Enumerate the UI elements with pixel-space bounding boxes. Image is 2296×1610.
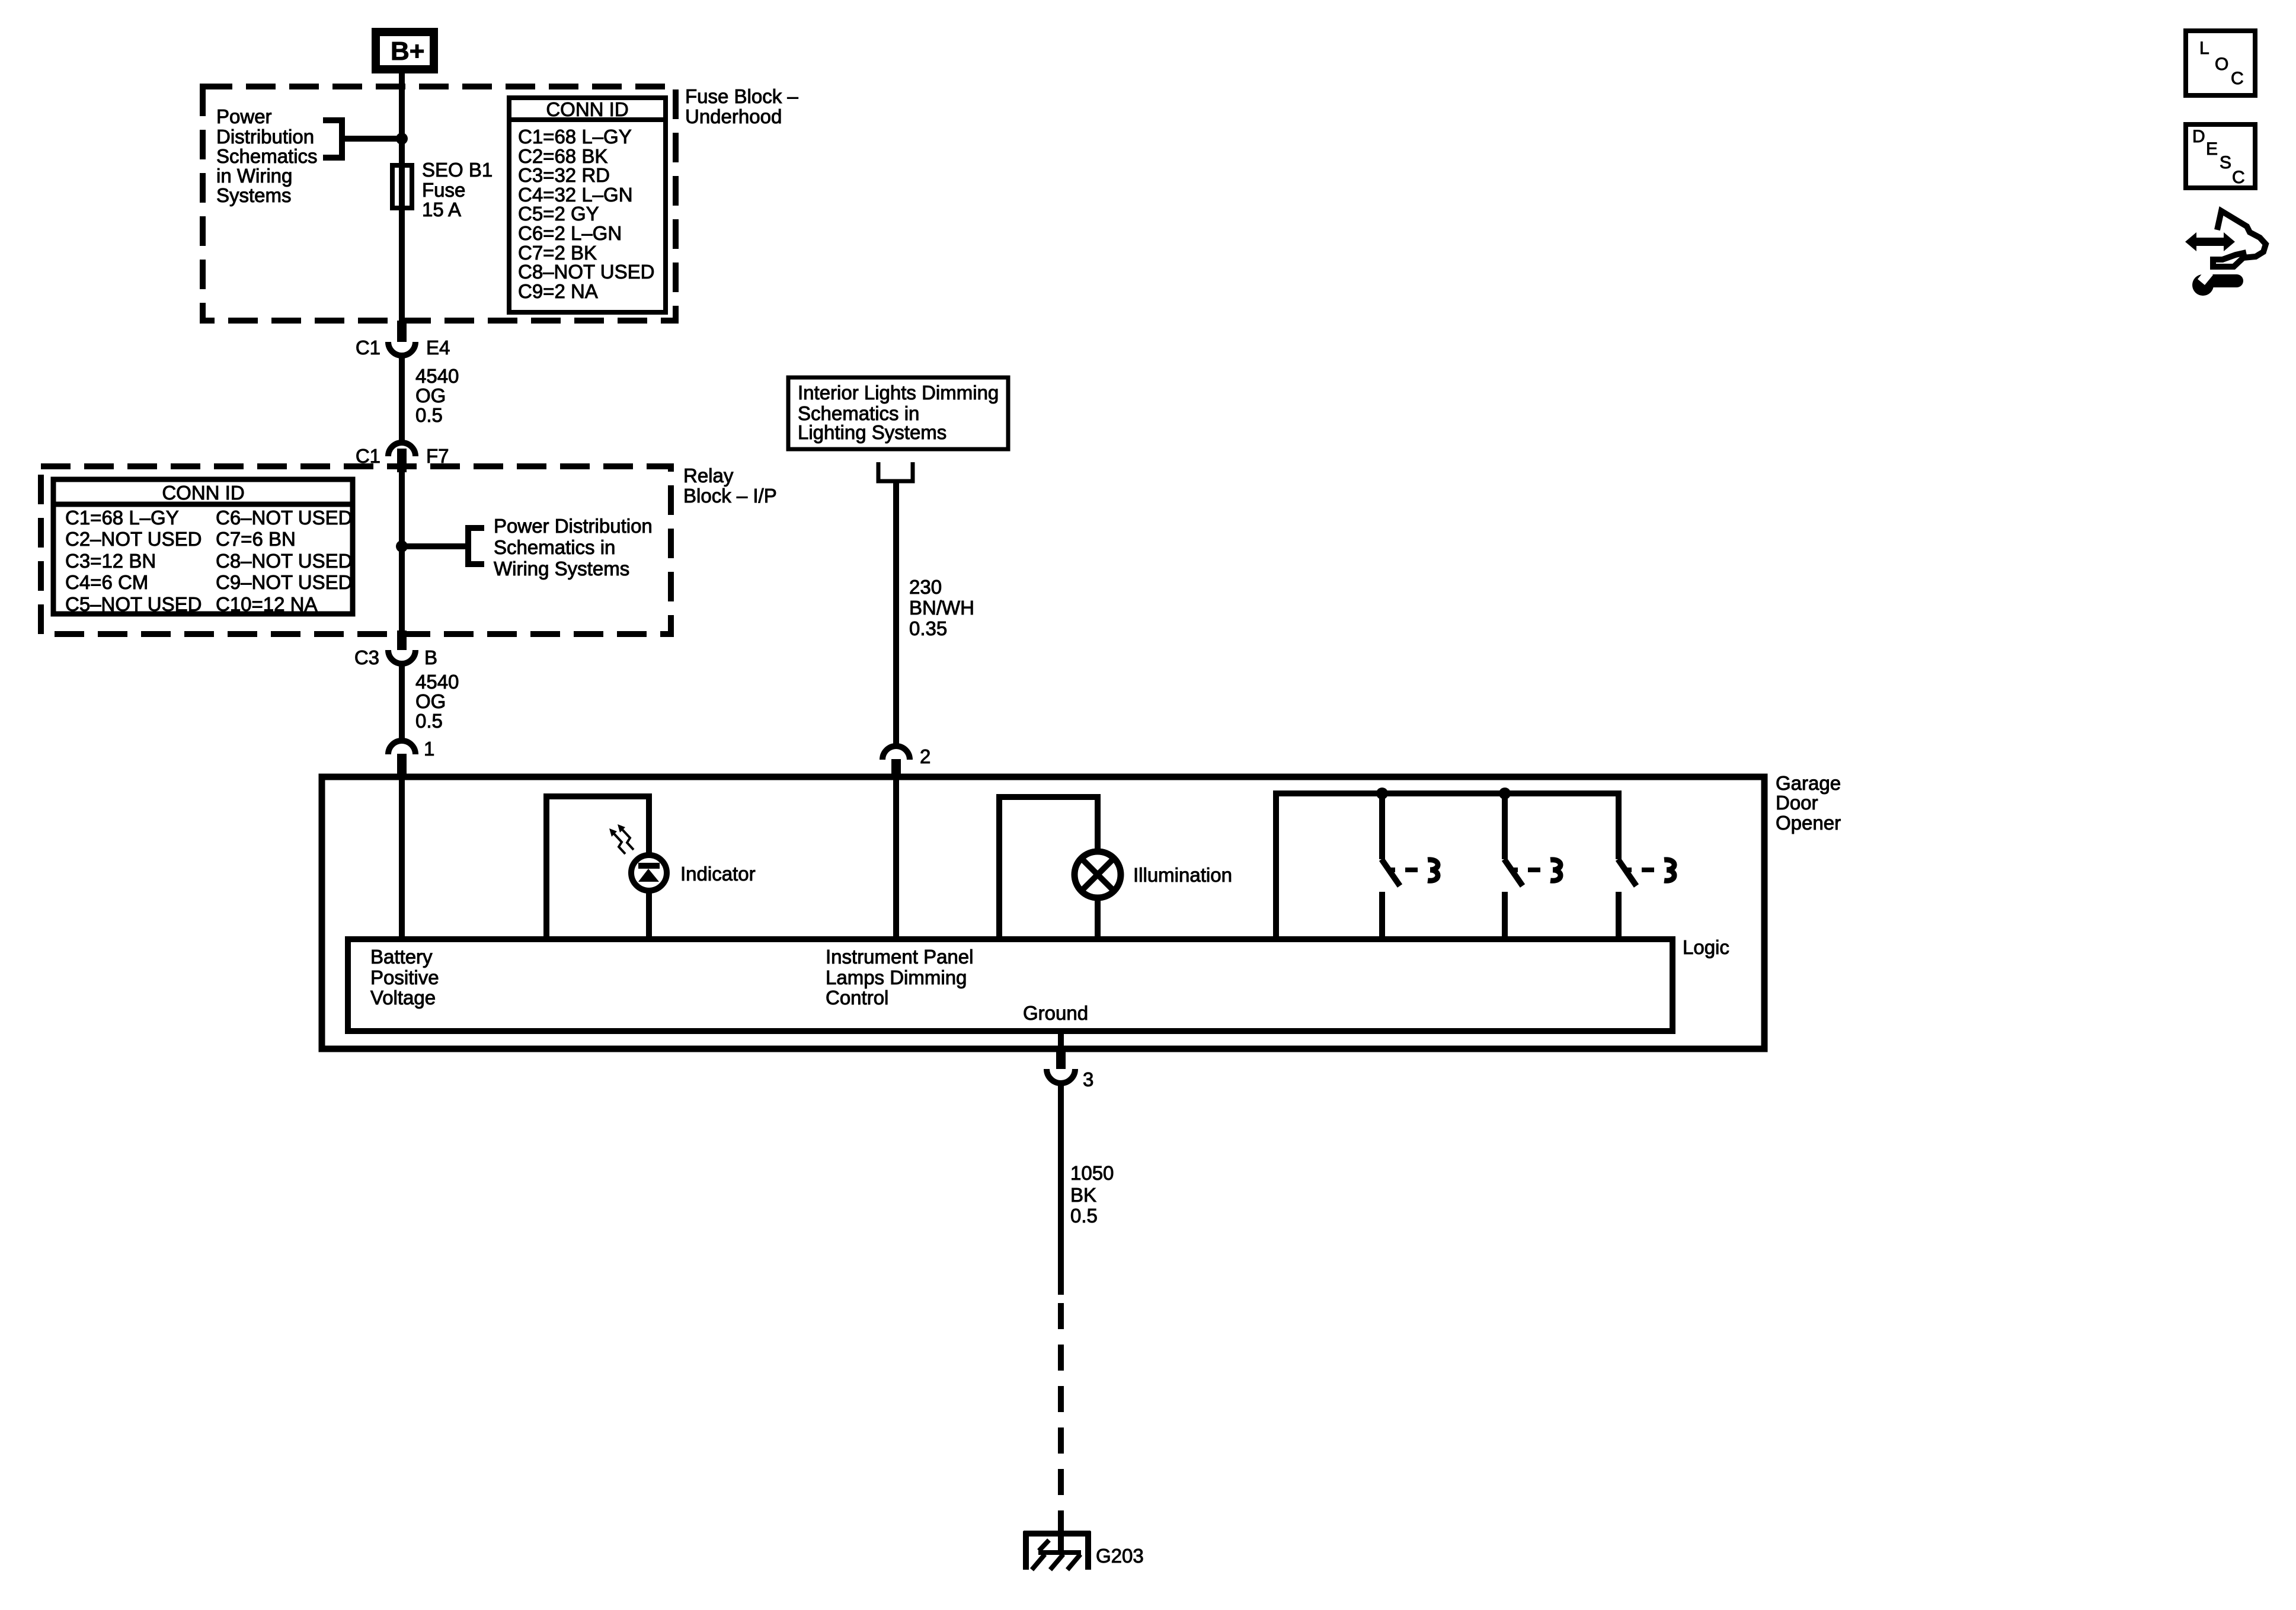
wire LED to logic [646, 891, 652, 939]
svg-text:E: E [2206, 139, 2218, 159]
svg-text:OG: OG [415, 690, 446, 712]
svg-text:Opener: Opener [1776, 812, 1841, 834]
bracket to Power Distribution note [323, 120, 342, 158]
svg-text:1050: 1050 [1070, 1162, 1114, 1184]
svg-text:Voltage: Voltage [370, 987, 436, 1009]
wire 2 dimming control inside box [893, 777, 899, 939]
svg-text:0.5: 0.5 [415, 710, 443, 732]
indicator LED branch loop [546, 796, 649, 939]
svg-text:C1=68 L–GY: C1=68 L–GY [65, 507, 179, 529]
svg-text:C5–NOT USED: C5–NOT USED [65, 593, 202, 615]
illumination lamp branch loop [999, 797, 1098, 939]
fuse SEO B1 15 A [392, 165, 412, 208]
svg-text:4540: 4540 [415, 671, 459, 693]
switch feed rail [1276, 793, 1619, 939]
svg-text:Control: Control [826, 987, 888, 1009]
wire bracket to junction [342, 136, 402, 142]
B+ power symbol box [376, 32, 434, 69]
LED light arrows [614, 830, 634, 854]
svg-text:230: 230 [909, 576, 942, 598]
svg-text:4540: 4540 [415, 365, 459, 387]
connector pin 3 [1047, 1068, 1093, 1090]
junction dot [396, 133, 408, 145]
svg-text:2: 2 [920, 745, 930, 767]
svg-text:Indicator: Indicator [680, 863, 756, 885]
wire lamp to logic [1095, 898, 1101, 939]
svg-text:Systems: Systems [216, 184, 292, 206]
wire from dimming reference down [893, 481, 899, 746]
junction dot relay [396, 540, 408, 552]
ground wire down [1058, 1083, 1064, 1295]
svg-text:Illumination: Illumination [1133, 864, 1232, 886]
fuse block underhood dashed box [203, 87, 676, 321]
connector C1 F7 [356, 443, 449, 472]
svg-text:S: S [2220, 153, 2231, 172]
svg-text:in Wiring: in Wiring [216, 165, 292, 187]
svg-text:Interior Lights Dimming: Interior Lights Dimming [798, 382, 999, 404]
svg-text:3: 3 [1083, 1068, 1093, 1090]
wire E4 to F7 [399, 356, 405, 443]
svg-text:SEO B1: SEO B1 [422, 159, 493, 181]
svg-text:CONN ID: CONN ID [546, 98, 628, 120]
svg-text:C9–NOT USED: C9–NOT USED [216, 571, 352, 593]
bracket to Power Distribution note (relay) [468, 528, 484, 564]
svg-text:Relay: Relay [683, 465, 734, 486]
svg-text:1: 1 [424, 738, 434, 760]
svg-text:Power: Power [216, 105, 272, 127]
svg-text:C5=2 GY: C5=2 GY [518, 203, 599, 225]
svg-text:Lighting Systems: Lighting Systems [798, 421, 946, 443]
relay block I/P dashed box [41, 466, 671, 634]
svg-text:C: C [2231, 69, 2244, 88]
svg-text:C4=6 CM: C4=6 CM [65, 571, 148, 593]
connector pin 1 [388, 738, 434, 777]
svg-text:BN/WH: BN/WH [909, 597, 974, 619]
svg-text:Block – I/P: Block – I/P [683, 485, 777, 507]
svg-text:C8–NOT USED: C8–NOT USED [216, 550, 352, 572]
svg-text:Underhood: Underhood [685, 105, 782, 127]
svg-text:0.35: 0.35 [909, 617, 947, 639]
svg-text:Distribution: Distribution [216, 126, 314, 148]
CONN ID table (fuse block underhood) [509, 98, 666, 312]
Garage Door Opener box [322, 777, 1764, 1049]
off-page connector bracket below box [878, 462, 913, 481]
svg-text:B+: B+ [391, 37, 424, 66]
schematic navigation icon (wrench) [2192, 269, 2243, 296]
svg-text:O: O [2215, 55, 2228, 74]
svg-text:CONN ID: CONN ID [162, 482, 244, 504]
svg-text:Positive: Positive [370, 966, 439, 988]
svg-text:Schematics in: Schematics in [494, 536, 615, 558]
connector C1 E4 [356, 321, 450, 359]
svg-text:BK: BK [1070, 1184, 1096, 1206]
svg-text:Garage: Garage [1776, 772, 1841, 794]
svg-text:C9=2 NA: C9=2 NA [518, 280, 598, 302]
svg-text:C10=12 NA: C10=12 NA [216, 593, 318, 615]
svg-text:C: C [2232, 168, 2245, 187]
svg-text:C3=32 RD: C3=32 RD [518, 164, 610, 186]
svg-text:Schematics: Schematics [216, 145, 318, 167]
svg-text:C6=2 L–GN: C6=2 L–GN [518, 222, 622, 244]
ground symbol G203 [1024, 1531, 1144, 1570]
junction dot switch 2 [1499, 788, 1511, 799]
svg-text:C6–NOT USED: C6–NOT USED [216, 507, 352, 529]
svg-text:C1: C1 [356, 337, 380, 359]
Interior Lights Dimming reference box [788, 377, 1008, 449]
connector pin 2 [882, 745, 930, 777]
svg-text:Fuse: Fuse [422, 179, 465, 201]
junction dot switch 1 [1376, 788, 1388, 799]
svg-text:0.5: 0.5 [415, 404, 443, 426]
connector C3 B [354, 630, 437, 668]
svg-text:Ground: Ground [1023, 1002, 1088, 1024]
LED circle indicator [631, 855, 667, 891]
svg-text:C8–NOT USED: C8–NOT USED [518, 261, 654, 283]
switch 1 [1382, 793, 1438, 939]
wire from B+ down to E4 [399, 73, 405, 323]
svg-text:Battery: Battery [370, 946, 433, 968]
svg-text:C3=12 BN: C3=12 BN [65, 550, 156, 572]
svg-text:0.5: 0.5 [1070, 1205, 1098, 1227]
schematic navigation icon (outline shape) [2213, 211, 2266, 267]
svg-text:E4: E4 [426, 337, 450, 359]
DESC reference box [2186, 124, 2255, 188]
schematic navigation icon (double arrow) [2185, 232, 2235, 251]
svg-text:Power Distribution: Power Distribution [494, 515, 653, 537]
svg-text:OG: OG [415, 385, 446, 406]
svg-text:Logic: Logic [1683, 936, 1729, 958]
svg-text:B: B [424, 646, 437, 668]
svg-text:Door: Door [1776, 792, 1818, 814]
svg-text:L: L [2199, 39, 2209, 58]
svg-text:C7=6 BN: C7=6 BN [216, 528, 296, 550]
svg-text:C2–NOT USED: C2–NOT USED [65, 528, 202, 550]
lamp circle illumination [1075, 852, 1121, 898]
wire 1 battery feed inside box [399, 777, 405, 939]
svg-text:Instrument Panel: Instrument Panel [826, 946, 973, 968]
LOC reference box [2186, 31, 2255, 95]
svg-text:C1=68 L–GY: C1=68 L–GY [518, 126, 632, 148]
svg-text:Lamps Dimming: Lamps Dimming [826, 966, 967, 988]
svg-text:G203: G203 [1096, 1545, 1144, 1567]
svg-text:15 A: 15 A [422, 199, 461, 220]
Logic box [348, 939, 1673, 1031]
switch 2 [1504, 793, 1560, 939]
svg-text:D: D [2192, 127, 2205, 146]
wire through relay block [399, 472, 405, 630]
svg-text:Wiring Systems: Wiring Systems [494, 558, 629, 580]
ground wire from logic [1058, 1031, 1064, 1049]
svg-text:Fuse Block –: Fuse Block – [685, 85, 798, 107]
switch 3 [1618, 859, 1674, 939]
CONN ID table (relay block) [53, 479, 353, 615]
wire B to 1 [399, 664, 405, 741]
svg-text:C3: C3 [354, 646, 379, 668]
dashed ground wire [1058, 1303, 1064, 1521]
wire junction to bracket [402, 543, 468, 549]
